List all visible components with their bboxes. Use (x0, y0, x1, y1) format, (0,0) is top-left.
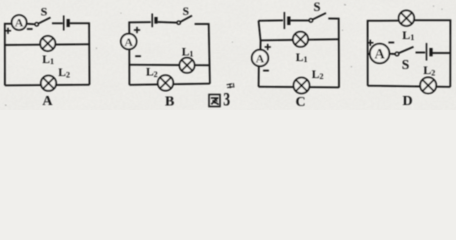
wire: A left edge (5, 24, 12, 86)
wire: D middle right stub (433, 52, 451, 54)
wire: B middle branch (129, 64, 209, 66)
label + (ammeter C) (265, 44, 271, 50)
wire: D bottom edge (368, 86, 451, 87)
wire: B top-right + right edge (195, 24, 210, 84)
lamp L1 (A) (40, 36, 55, 51)
switch S (D) (389, 47, 413, 56)
wire: C top-left + left edge upper (259, 21, 261, 50)
switch S (C) (309, 13, 326, 22)
svg-text:3: 3 (223, 88, 230, 110)
svg-text:S: S (314, 0, 321, 14)
switch S (B) (177, 16, 192, 25)
wire: C top edge left part (259, 19, 284, 21)
lamp L2 (A) (41, 76, 56, 91)
wire: A top right + right edge (70, 23, 90, 85)
lamp L1 (B) (180, 58, 195, 73)
svg-text:A: A (124, 35, 133, 49)
scan speckles (5, 5, 443, 106)
svg-text:S: S (183, 6, 189, 18)
wire: B bottom edge (129, 84, 210, 85)
label + (ammeter A) (5, 28, 11, 34)
lamp L2 (C) (294, 78, 310, 94)
label - (ammeter D) (388, 42, 394, 44)
wire: A bottom edge (5, 84, 90, 87)
label - (ammeter B) (135, 55, 141, 57)
svg-text:C: C (295, 95, 305, 110)
svg-text:B: B (165, 95, 174, 110)
lamp L2 (D) (420, 77, 436, 93)
wire: D top-left + left edge (368, 21, 400, 86)
label - (ammeter A) (27, 28, 33, 30)
wire: C top between battery and switch (290, 20, 309, 22)
svg-text:D: D (403, 94, 413, 109)
lamp L2 (B) (158, 75, 173, 90)
battery (D) (427, 43, 432, 61)
battery (B) (152, 14, 156, 28)
wire: D top-right + right edge (414, 20, 451, 87)
svg-text:S: S (41, 5, 48, 19)
wire: A top between ammeter and switch (27, 23, 36, 25)
paper background (0, 0, 456, 110)
svg-text:A: A (374, 47, 385, 63)
switch S (A) (35, 18, 51, 27)
svg-text:A: A (256, 51, 265, 65)
label + (ammeter B) (134, 27, 140, 33)
lamp L1 (C) (293, 32, 308, 47)
svg-text:A: A (15, 16, 24, 30)
wire: C left edge lower (258, 66, 260, 87)
svg-text:A: A (42, 94, 53, 109)
wire: C top-right + right edge (328, 19, 339, 88)
label - (ammeter C) (263, 70, 269, 72)
wire: D middle left stub (368, 53, 371, 55)
battery (C) (284, 12, 288, 29)
ammeter (D) (370, 44, 389, 63)
wire: C bottom edge (259, 86, 339, 89)
figure label 图3 (209, 83, 234, 110)
svg-text:S: S (402, 57, 410, 72)
label + (ammeter D) (367, 40, 373, 46)
battery (A) (64, 16, 68, 31)
ammeter (B) (121, 34, 137, 50)
wire: A top between switch and battery (52, 22, 63, 24)
wire: B top between battery and switch (158, 21, 177, 24)
ammeter A (circuit A) (12, 15, 27, 30)
wire: B top-left (129, 22, 151, 34)
wire: B left edge lower (128, 49, 130, 85)
wire: A middle branch (5, 43, 89, 46)
wire: C middle branch (261, 39, 339, 40)
lamp L1 (D) (399, 11, 414, 26)
ammeter (C) (252, 50, 268, 66)
wire: D middle between switch and battery (416, 52, 426, 54)
